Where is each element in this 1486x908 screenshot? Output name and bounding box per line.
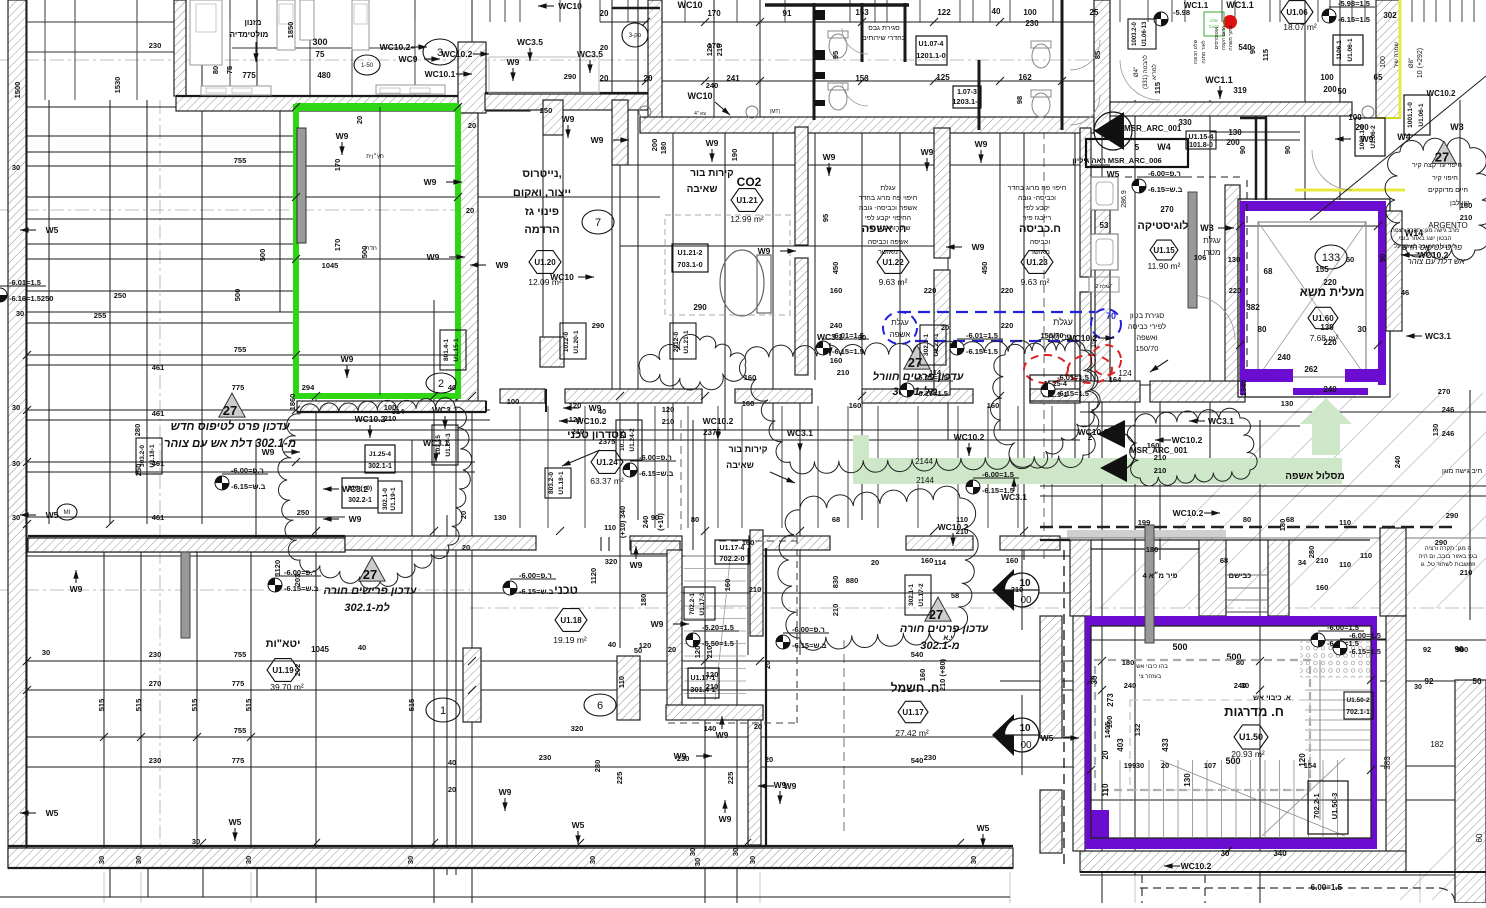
- svg-text:20: 20: [941, 323, 949, 332]
- svg-text:500: 500: [258, 249, 267, 262]
- svg-text:1120: 1120: [273, 560, 282, 576]
- svg-text:210: 210: [1154, 453, 1167, 462]
- svg-text:-6.16=1.5250: -6.16=1.5250: [9, 294, 53, 303]
- svg-text:202: 202: [293, 664, 302, 677]
- svg-text:החיפוי יקבע לפי: החיפוי יקבע לפי: [865, 214, 911, 222]
- svg-text:203: 203: [293, 574, 302, 587]
- svg-text:U1.19-1: U1.19-1: [390, 487, 397, 511]
- svg-text:סגירת בטון: סגירת בטון: [1130, 311, 1164, 320]
- svg-text:199: 199: [1124, 761, 1137, 770]
- svg-text:U1.07-4: U1.07-4: [919, 41, 944, 48]
- svg-text:30: 30: [16, 309, 24, 318]
- svg-text:W9: W9: [972, 242, 985, 252]
- svg-text:515: 515: [134, 699, 143, 712]
- svg-text:27: 27: [1435, 150, 1449, 165]
- svg-text:162: 162: [1018, 73, 1032, 82]
- svg-text:100: 100: [1320, 73, 1334, 82]
- svg-text:W9: W9: [262, 447, 275, 457]
- svg-text:U1.06: U1.06: [1286, 8, 1308, 17]
- svg-text:MSR_ARC_001: MSR_ARC_001: [1124, 124, 1182, 133]
- svg-text:100: 100: [507, 397, 520, 406]
- svg-text:U1.06-1: U1.06-1: [1347, 38, 1354, 62]
- svg-text:W5: W5: [229, 817, 242, 827]
- svg-text:220: 220: [1323, 278, 1337, 287]
- svg-text:210: 210: [384, 414, 397, 423]
- svg-text:110: 110: [956, 515, 968, 524]
- svg-text:(331) להבטה: (331) להבטה: [1141, 55, 1149, 89]
- svg-text:500: 500: [360, 246, 369, 259]
- svg-text:30: 30: [134, 856, 143, 864]
- svg-text:182: 182: [1430, 740, 1444, 749]
- svg-text:500: 500: [1225, 756, 1240, 766]
- svg-text:W9: W9: [921, 147, 934, 157]
- svg-text:75: 75: [316, 50, 325, 59]
- svg-text:2: 2: [438, 378, 444, 390]
- svg-text:100: 100: [1380, 56, 1387, 68]
- svg-text:פינוי גז: פינוי גז: [525, 206, 559, 218]
- svg-text:164: 164: [1109, 375, 1122, 384]
- svg-text:132: 132: [1133, 724, 1142, 737]
- svg-text:בגצ באזור בובב, ום היה: בגצ באזור בובב, ום היה: [1419, 554, 1478, 560]
- svg-text:WC10.1: WC10.1: [425, 69, 456, 79]
- svg-text:302: 302: [1383, 11, 1397, 20]
- svg-text:WC3.1: WC3.1: [1425, 331, 1451, 341]
- svg-text:1203.1-0: 1203.1-0: [952, 97, 982, 106]
- svg-text:9.63 m²: 9.63 m²: [879, 277, 908, 287]
- svg-text:W9: W9: [336, 131, 349, 141]
- svg-text:WC10.2: WC10.2: [380, 42, 411, 52]
- svg-text:שאיבה: שאיבה: [687, 184, 718, 195]
- svg-text:230: 230: [539, 753, 552, 762]
- svg-text:40: 40: [448, 758, 456, 767]
- svg-text:775: 775: [242, 71, 256, 80]
- svg-text:120: 120: [693, 646, 702, 659]
- svg-text:240: 240: [706, 81, 719, 90]
- svg-text:30: 30: [688, 848, 697, 856]
- svg-text:U1.18-1: U1.18-1: [558, 471, 565, 495]
- svg-text:153: 153: [855, 8, 869, 17]
- svg-text:130: 130: [1320, 323, 1334, 332]
- svg-text:240: 240: [1323, 385, 1337, 394]
- svg-text:515: 515: [190, 699, 199, 712]
- svg-text:30: 30: [42, 648, 50, 657]
- svg-text:180: 180: [659, 142, 668, 155]
- svg-text:140: 140: [704, 724, 717, 733]
- svg-text:חיפוי קיר: חיפוי קיר: [1432, 175, 1458, 182]
- svg-text:-6.00=ר.פ: -6.00=ר.פ: [519, 571, 552, 580]
- svg-text:ח. חשמל: ח. חשמל: [891, 681, 940, 695]
- svg-text:-6.00=ר.פ: -6.00=ר.פ: [792, 625, 825, 634]
- svg-text:1003.2-0: 1003.2-0: [1132, 21, 1138, 45]
- svg-text:20: 20: [462, 543, 470, 552]
- svg-text:W4: W4: [1397, 132, 1411, 142]
- svg-text:שאיבה: שאיבה: [726, 460, 754, 470]
- svg-text:WC10.2: WC10.2: [1067, 333, 1098, 343]
- svg-text:שלט: שלט: [1210, 18, 1218, 23]
- svg-text:11.90 m²: 11.90 m²: [1148, 261, 1181, 271]
- svg-text:91: 91: [783, 9, 792, 18]
- svg-text:20: 20: [448, 785, 456, 794]
- svg-text:130: 130: [494, 513, 507, 522]
- svg-text:W9: W9: [823, 152, 836, 162]
- svg-text:-6.15=1.5: -6.15=1.5: [1338, 15, 1370, 24]
- svg-text:הבטון יוצג באזור בובי: הבטון יוצג באזור בובי: [1399, 236, 1452, 242]
- svg-text:00: 00: [1020, 595, 1032, 606]
- svg-text:120: 120: [639, 641, 652, 650]
- svg-text:עדכון פרט לטיפוס חדש: עדכון פרט לטיפוס חדש: [170, 420, 290, 433]
- svg-text:160: 160: [918, 669, 927, 682]
- svg-text:120: 120: [662, 405, 675, 414]
- svg-text:27: 27: [223, 403, 237, 418]
- svg-text:U1.17: U1.17: [902, 708, 924, 717]
- svg-text:240: 240: [830, 321, 843, 330]
- svg-text:270: 270: [149, 679, 162, 688]
- svg-text:-6.00=1.5: -6.00=1.5: [982, 470, 1014, 479]
- svg-text:1001.1-0: 1001.1-0: [1407, 102, 1414, 128]
- svg-text:-5.20=1.5: -5.20=1.5: [702, 623, 734, 632]
- svg-text:110: 110: [1339, 560, 1351, 569]
- svg-text:U1.06-1: U1.06-1: [1418, 103, 1425, 127]
- svg-text:210: 210: [1011, 585, 1024, 594]
- svg-text:250: 250: [114, 291, 127, 300]
- svg-text:מעלית משא: מעלית משא: [1300, 285, 1365, 299]
- svg-text:30: 30: [97, 856, 106, 864]
- svg-text:הדום הקפה: הדום הקפה: [1221, 26, 1227, 50]
- svg-text:WC3.5: WC3.5: [517, 37, 543, 47]
- svg-text:450: 450: [980, 262, 989, 275]
- svg-text:W9: W9: [424, 177, 437, 187]
- svg-text:מרב גישה מגן: תקרה רצפה: מרב גישה מגן: תקרה רצפה: [1391, 228, 1459, 234]
- svg-text:לוגיסטיקה: לוגיסטיקה: [1137, 219, 1188, 232]
- svg-text:WC10.2: WC10.2: [1173, 508, 1204, 518]
- svg-text:160: 160: [1316, 583, 1329, 592]
- svg-text:40: 40: [448, 383, 456, 392]
- svg-text:1106.1: 1106.1: [1336, 40, 1343, 60]
- svg-text:U1.06-13: U1.06-13: [1142, 21, 1148, 46]
- svg-text:U1.20: U1.20: [534, 258, 556, 267]
- svg-text:לאור מחנה: לאור מחנה: [1200, 40, 1207, 63]
- svg-text:160: 160: [744, 373, 757, 382]
- svg-text:180: 180: [1122, 658, 1135, 667]
- svg-text:801.4-1: 801.4-1: [443, 339, 450, 361]
- svg-text:חיב גישה מוגן: חיב גישה מוגן: [1442, 468, 1482, 475]
- svg-text:U1.22-1: U1.22-1: [933, 333, 940, 357]
- svg-text:302.1-מ: 302.1-מ: [920, 640, 959, 652]
- svg-text:-6.01=1.5: -6.01=1.5: [9, 278, 41, 287]
- svg-text:302.1-1: 302.1-1: [908, 584, 915, 606]
- svg-text:540: 540: [911, 756, 924, 765]
- svg-text:18.07 m²: 18.07 m²: [1283, 22, 1317, 32]
- svg-text:450: 450: [831, 262, 840, 275]
- svg-text:WC10.2: WC10.2: [1181, 861, 1212, 871]
- svg-text:160: 160: [742, 399, 755, 408]
- svg-text:92: 92: [1423, 645, 1431, 654]
- svg-text:300: 300: [312, 37, 327, 47]
- svg-text:30: 30: [748, 856, 757, 864]
- svg-text:200: 200: [1226, 138, 1240, 147]
- svg-text:1340: 1340: [1239, 380, 1248, 397]
- svg-text:ראה גיליון MSR_ARC_006: ראה גיליון MSR_ARC_006: [1072, 156, 1161, 165]
- svg-text:230: 230: [149, 756, 162, 765]
- svg-text:1405: 1405: [1103, 722, 1112, 739]
- svg-text:1530: 1530: [113, 77, 122, 94]
- svg-text:480: 480: [317, 71, 331, 80]
- svg-text:-5.98=1.5: -5.98=1.5: [1338, 0, 1370, 8]
- svg-text:290: 290: [693, 303, 707, 312]
- svg-text:210: 210: [706, 682, 719, 691]
- svg-text:461: 461: [152, 459, 165, 468]
- svg-text:20: 20: [600, 43, 608, 52]
- svg-text:W3: W3: [1200, 223, 1214, 233]
- svg-text:220: 220: [1001, 321, 1014, 330]
- svg-text:U1.23: U1.23: [1026, 258, 1048, 267]
- svg-text:302.1-1: 302.1-1: [368, 463, 392, 470]
- svg-text:755: 755: [234, 726, 247, 735]
- svg-text:W9: W9: [499, 787, 512, 797]
- svg-text:W5: W5: [977, 823, 990, 833]
- svg-text:461: 461: [152, 363, 165, 372]
- svg-text:סגירת גבס: סגירת גבס: [868, 25, 900, 32]
- svg-text:וכביסה: וכביסה: [1030, 239, 1050, 246]
- svg-text:210: 210: [1460, 213, 1473, 222]
- svg-text:WC3.1: WC3.1: [432, 405, 458, 415]
- svg-text:40: 40: [358, 643, 366, 652]
- svg-text:30: 30: [969, 856, 978, 864]
- svg-text:190: 190: [730, 149, 739, 162]
- svg-text:246: 246: [1442, 405, 1455, 414]
- svg-text:303.2-0: 303.2-0: [139, 445, 146, 467]
- svg-text:U1.22: U1.22: [882, 258, 904, 267]
- svg-text:-6.15=ב.ש: -6.15=ב.ש: [231, 482, 266, 491]
- svg-text:WC1.1: WC1.1: [1184, 1, 1209, 10]
- svg-text:CO2: CO2: [737, 175, 762, 189]
- svg-text:320: 320: [571, 724, 584, 733]
- svg-text:20: 20: [871, 558, 879, 567]
- svg-text:1120: 1120: [589, 568, 598, 584]
- svg-text:עגלת: עגלת: [1053, 317, 1073, 327]
- svg-text:290: 290: [1446, 511, 1459, 520]
- svg-text:א. כיבוי אש: א. כיבוי אש: [1253, 693, 1291, 702]
- svg-text:ואשפה: ואשפה: [1136, 333, 1157, 342]
- svg-text:U1.24: U1.24: [596, 458, 618, 467]
- svg-text:703.1-0: 703.1-0: [677, 260, 702, 269]
- svg-text:110: 110: [1360, 551, 1372, 560]
- svg-text:20: 20: [466, 206, 474, 215]
- svg-text:WC10: WC10: [550, 272, 574, 282]
- svg-text:101.8-0: 101.8-0: [1189, 142, 1213, 149]
- svg-text:775: 775: [232, 756, 245, 765]
- svg-text:702.2-1: 702.2-1: [689, 593, 696, 615]
- svg-text:למריא: למריא: [1150, 64, 1158, 80]
- svg-text:U1.18: U1.18: [560, 616, 582, 625]
- svg-text:775: 775: [232, 383, 245, 392]
- svg-text:WC3.1: WC3.1: [423, 438, 449, 448]
- svg-text:W9: W9: [651, 619, 664, 629]
- svg-text:ה מגן: תקרה ורציה: ה מגן: תקרה ורציה: [1425, 546, 1472, 552]
- svg-text:2375: 2375: [599, 437, 616, 446]
- svg-text:319: 319: [1233, 86, 1247, 95]
- svg-text:WC1.1: WC1.1: [1226, 0, 1254, 10]
- svg-text:106: 106: [1194, 253, 1207, 262]
- svg-text:ייצור, ואקום: ייצור, ואקום: [513, 187, 571, 199]
- svg-text:W9: W9: [341, 354, 354, 364]
- svg-text:W9: W9: [70, 584, 83, 594]
- svg-text:קירות בור: קירות בור: [728, 444, 767, 454]
- svg-text:W9: W9: [975, 139, 988, 149]
- svg-text:210: 210: [715, 44, 724, 57]
- svg-text:120: 120: [569, 415, 582, 424]
- svg-text:115: 115: [1153, 82, 1162, 94]
- svg-text:U1.20-1: U1.20-1: [573, 330, 580, 354]
- svg-text:273: 273: [1106, 693, 1115, 707]
- svg-text:210: 210: [956, 527, 969, 536]
- svg-text:200: 200: [650, 139, 659, 152]
- svg-text:220: 220: [1323, 338, 1337, 347]
- svg-text:-6.00=ר.פ: -6.00=ר.פ: [231, 466, 264, 475]
- svg-text:40: 40: [608, 640, 616, 649]
- svg-text:160: 160: [849, 401, 862, 410]
- svg-text:00: 00: [1020, 740, 1032, 751]
- svg-text:6: 6: [597, 700, 603, 712]
- svg-text:1.07-3: 1.07-3: [957, 89, 977, 96]
- svg-text:160: 160: [921, 556, 934, 565]
- svg-text:20: 20: [468, 121, 476, 130]
- svg-text:4 פיר מ״א: 4 פיר מ״א: [1142, 571, 1177, 580]
- svg-text:WC3.2: WC3.2: [342, 484, 368, 494]
- svg-text:90: 90: [1378, 254, 1387, 262]
- svg-text:50: 50: [1338, 87, 1347, 96]
- svg-text:110: 110: [1339, 518, 1351, 527]
- svg-text:20: 20: [763, 661, 772, 669]
- svg-text:230: 230: [149, 650, 162, 659]
- svg-text:שמרה שיר: שמרה שיר: [1394, 41, 1400, 68]
- svg-text:210: 210: [749, 585, 762, 594]
- svg-text:46: 46: [1401, 288, 1409, 297]
- svg-text:מסלול אשפה: מסלול אשפה: [1285, 470, 1344, 482]
- svg-text:-6.15=ב.ש: -6.15=ב.ש: [519, 587, 554, 596]
- svg-text:20: 20: [459, 511, 468, 519]
- svg-text:90: 90: [1238, 146, 1247, 154]
- svg-text:W9: W9: [427, 252, 440, 262]
- svg-text:חיפוי פח מרוג בחדר: חיפוי פח מרוג בחדר: [859, 195, 918, 202]
- svg-text:180: 180: [1278, 519, 1287, 532]
- svg-text:W9: W9: [591, 135, 604, 145]
- svg-text:160: 160: [1006, 556, 1019, 565]
- svg-text:160: 160: [742, 538, 755, 547]
- svg-text:-6.15=ב.ש: -6.15=ב.ש: [639, 469, 674, 478]
- svg-text:ליחצו והחושבה לשחוו על: ליחצו והחושבה לשחוו על: [1394, 242, 1456, 250]
- svg-text:702.2-1: 702.2-1: [1312, 793, 1321, 818]
- svg-text:חץ״ןית: חץ״ןית: [366, 153, 384, 160]
- svg-text:W9: W9: [774, 780, 787, 790]
- svg-text:-6.01=1.5: -6.01=1.5: [1057, 373, 1089, 382]
- svg-text:30: 30: [406, 856, 415, 864]
- svg-text:חיים מדוקקים: חיים מדוקקים: [1428, 187, 1468, 194]
- svg-text:מולטימדיה: מולטימדיה: [230, 30, 269, 39]
- svg-text:2012-0: 2012-0: [673, 332, 680, 353]
- svg-text:בעזהר צי: בעזהר צי: [1139, 674, 1162, 680]
- svg-text:230: 230: [924, 753, 937, 762]
- svg-text:130: 130: [1281, 399, 1294, 408]
- svg-text:W9: W9: [706, 138, 719, 148]
- svg-text:30: 30: [1241, 681, 1249, 690]
- svg-text:160: 160: [723, 579, 732, 592]
- svg-text:302.1-1: 302.1-1: [923, 334, 930, 356]
- svg-text:20: 20: [1101, 750, 1110, 759]
- svg-text:וכביסה- גובה: וכביסה- גובה: [1018, 195, 1056, 202]
- svg-text:ח. אשפה: ח. אשפה: [862, 223, 907, 235]
- svg-text:חיפוי פח מרוג בחדר: חיפוי פח מרוג בחדר: [1008, 185, 1067, 192]
- svg-text:240: 240: [1393, 456, 1402, 469]
- svg-text:MI: MI: [64, 510, 71, 516]
- svg-text:880: 880: [846, 576, 859, 585]
- svg-text:34: 34: [1298, 558, 1307, 567]
- svg-text:210: 210: [837, 368, 850, 377]
- svg-text:302.2-1: 302.2-1: [348, 497, 372, 504]
- svg-text:30: 30: [12, 163, 20, 172]
- svg-text:85: 85: [1093, 51, 1102, 59]
- svg-text:225: 225: [615, 772, 624, 785]
- svg-text:2144: 2144: [915, 457, 933, 466]
- svg-text:U1.21-1: U1.21-1: [683, 330, 690, 354]
- svg-text:53: 53: [1100, 221, 1109, 230]
- svg-text:250: 250: [134, 464, 143, 477]
- svg-text:1045: 1045: [311, 645, 329, 654]
- svg-text:286.9: 286.9: [1121, 190, 1128, 208]
- svg-text:160: 160: [830, 286, 843, 295]
- svg-text:U1.24-2: U1.24-2: [629, 428, 636, 452]
- svg-text:95: 95: [821, 214, 830, 222]
- svg-text:68: 68: [1220, 556, 1228, 565]
- svg-text:40: 40: [992, 7, 1001, 16]
- svg-text:150/70: 150/70: [1136, 344, 1159, 353]
- svg-text:403: 403: [1116, 738, 1125, 752]
- svg-text:(+10): (+10): [656, 513, 665, 531]
- svg-text:WC10: WC10: [677, 0, 702, 10]
- svg-text:110: 110: [604, 523, 616, 532]
- svg-text:לפירי כביסה: לפירי כביסה: [1128, 322, 1166, 331]
- svg-text:אשפה: אשפה: [890, 330, 911, 339]
- svg-text:2144: 2144: [916, 476, 934, 485]
- svg-text:755: 755: [234, 345, 247, 354]
- svg-text:230: 230: [1025, 19, 1039, 28]
- svg-text:-6.15=1.5: -6.15=1.5: [916, 389, 948, 398]
- svg-text:160: 160: [1460, 201, 1473, 210]
- svg-text:500: 500: [1172, 642, 1187, 652]
- svg-text:382: 382: [1246, 303, 1260, 312]
- svg-text:שלט הכוונה: שלט הכוונה: [1192, 39, 1199, 64]
- svg-text:WC1.1: WC1.1: [1205, 75, 1233, 85]
- svg-text:130: 130: [1183, 773, 1192, 787]
- svg-text:30: 30: [192, 837, 200, 846]
- svg-text:27.42 m²: 27.42 m²: [895, 728, 929, 738]
- svg-text:W9: W9: [349, 514, 362, 524]
- svg-text:120: 120: [569, 401, 582, 410]
- svg-text:160: 160: [1147, 441, 1160, 450]
- svg-text:W9: W9: [719, 814, 732, 824]
- svg-text:(MT): (MT): [770, 109, 781, 115]
- svg-text:461: 461: [152, 513, 165, 522]
- svg-text:210: 210: [705, 646, 714, 659]
- svg-text:80: 80: [1243, 515, 1251, 524]
- svg-text:170: 170: [333, 159, 342, 172]
- svg-text:20: 20: [754, 722, 762, 731]
- svg-text:302.1-0: 302.1-0: [382, 488, 389, 510]
- svg-text:340: 340: [1273, 849, 1287, 858]
- svg-text:702.1-1: 702.1-1: [1346, 709, 1370, 716]
- svg-text:עגלת: עגלת: [1203, 236, 1221, 245]
- svg-text:WC10.2: WC10.2: [1418, 250, 1449, 260]
